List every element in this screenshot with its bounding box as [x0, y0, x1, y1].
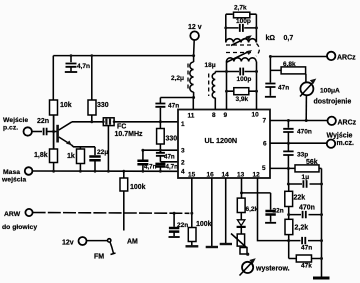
svg-text:5: 5: [262, 165, 266, 172]
svg-text:100p: 100p: [237, 76, 252, 83]
svg-text:100p: 100p: [236, 18, 251, 25]
svg-text:33p: 33p: [297, 152, 308, 159]
svg-text:p.cz.: p.cz.: [3, 125, 18, 132]
svg-text:FM: FM: [94, 254, 104, 261]
svg-text:470n: 470n: [299, 205, 315, 212]
svg-text:AM: AM: [127, 239, 138, 246]
svg-text:Masa: Masa: [3, 169, 20, 176]
svg-text:1k: 1k: [67, 153, 75, 160]
svg-text:m.cz.: m.cz.: [337, 140, 355, 147]
svg-text:1,8k: 1,8k: [34, 152, 48, 159]
svg-text:22k: 22k: [294, 195, 306, 202]
svg-text:2,2k: 2,2k: [295, 225, 309, 232]
svg-text:6,2k: 6,2k: [246, 206, 259, 213]
svg-text:22n: 22n: [37, 118, 49, 125]
svg-text:Wejście: Wejście: [3, 117, 28, 124]
svg-text:Wyjście: Wyjście: [327, 133, 353, 140]
svg-text:47n: 47n: [164, 154, 175, 161]
svg-text:12v: 12v: [62, 240, 74, 247]
svg-text:18μ: 18μ: [205, 62, 216, 69]
svg-text:15: 15: [188, 172, 196, 179]
svg-text:2,7k: 2,7k: [234, 5, 247, 12]
svg-text:dostrojenie: dostrojenie: [314, 99, 352, 106]
svg-text:6: 6: [263, 141, 267, 148]
svg-text:kΩ: kΩ: [266, 35, 276, 42]
svg-text:470n: 470n: [297, 129, 312, 136]
svg-text:3: 3: [181, 148, 185, 155]
svg-text:100k: 100k: [130, 184, 146, 191]
svg-text:10: 10: [252, 112, 260, 119]
svg-text:6,8k: 6,8k: [283, 61, 296, 68]
svg-text:wysterow.: wysterow.: [255, 266, 290, 273]
svg-text:FC: FC: [117, 124, 126, 131]
svg-text:100μA: 100μA: [320, 88, 340, 95]
svg-text:12 v: 12 v: [188, 24, 202, 31]
svg-text:47k: 47k: [301, 263, 312, 270]
svg-text:7: 7: [263, 118, 267, 125]
svg-text:47n: 47n: [278, 85, 289, 92]
svg-text:2: 2: [181, 160, 185, 167]
svg-text:10k: 10k: [60, 102, 72, 109]
svg-text:do głowicy: do głowicy: [2, 224, 37, 231]
svg-text:4,7n: 4,7n: [144, 164, 157, 171]
svg-text:0,7: 0,7: [284, 35, 294, 42]
svg-text:4: 4: [181, 169, 185, 176]
svg-text:8: 8: [212, 112, 216, 119]
svg-text:11: 11: [188, 113, 195, 120]
svg-text:ARW: ARW: [4, 211, 21, 218]
svg-text:22μ: 22μ: [97, 149, 108, 156]
svg-text:1: 1: [181, 121, 185, 128]
svg-text:16: 16: [207, 172, 215, 179]
svg-text:UL 1200N: UL 1200N: [205, 136, 238, 145]
svg-text:47n: 47n: [301, 245, 312, 252]
svg-text:10.7MHz: 10.7MHz: [115, 131, 144, 138]
svg-text:330: 330: [166, 136, 178, 143]
svg-text:22n: 22n: [273, 208, 284, 215]
svg-text:4,7n: 4,7n: [166, 164, 179, 171]
svg-text:1μ: 1μ: [302, 174, 310, 181]
svg-text:ARCz: ARCz: [337, 55, 356, 62]
svg-text:2,2μ: 2,2μ: [171, 75, 184, 82]
svg-text:47n: 47n: [168, 103, 179, 110]
svg-text:9: 9: [224, 112, 228, 119]
svg-text:13: 13: [237, 172, 245, 179]
svg-text:12: 12: [253, 172, 261, 179]
svg-text:4,7n: 4,7n: [77, 63, 90, 70]
svg-text:100k: 100k: [196, 221, 212, 228]
svg-text:22n: 22n: [177, 222, 188, 229]
svg-text:14: 14: [222, 172, 230, 179]
svg-text:ARCz: ARCz: [338, 120, 357, 127]
svg-text:3,9k: 3,9k: [236, 96, 249, 103]
svg-text:330: 330: [97, 102, 109, 109]
svg-text:wejścia: wejścia: [1, 177, 26, 184]
svg-text:56k: 56k: [306, 159, 318, 166]
